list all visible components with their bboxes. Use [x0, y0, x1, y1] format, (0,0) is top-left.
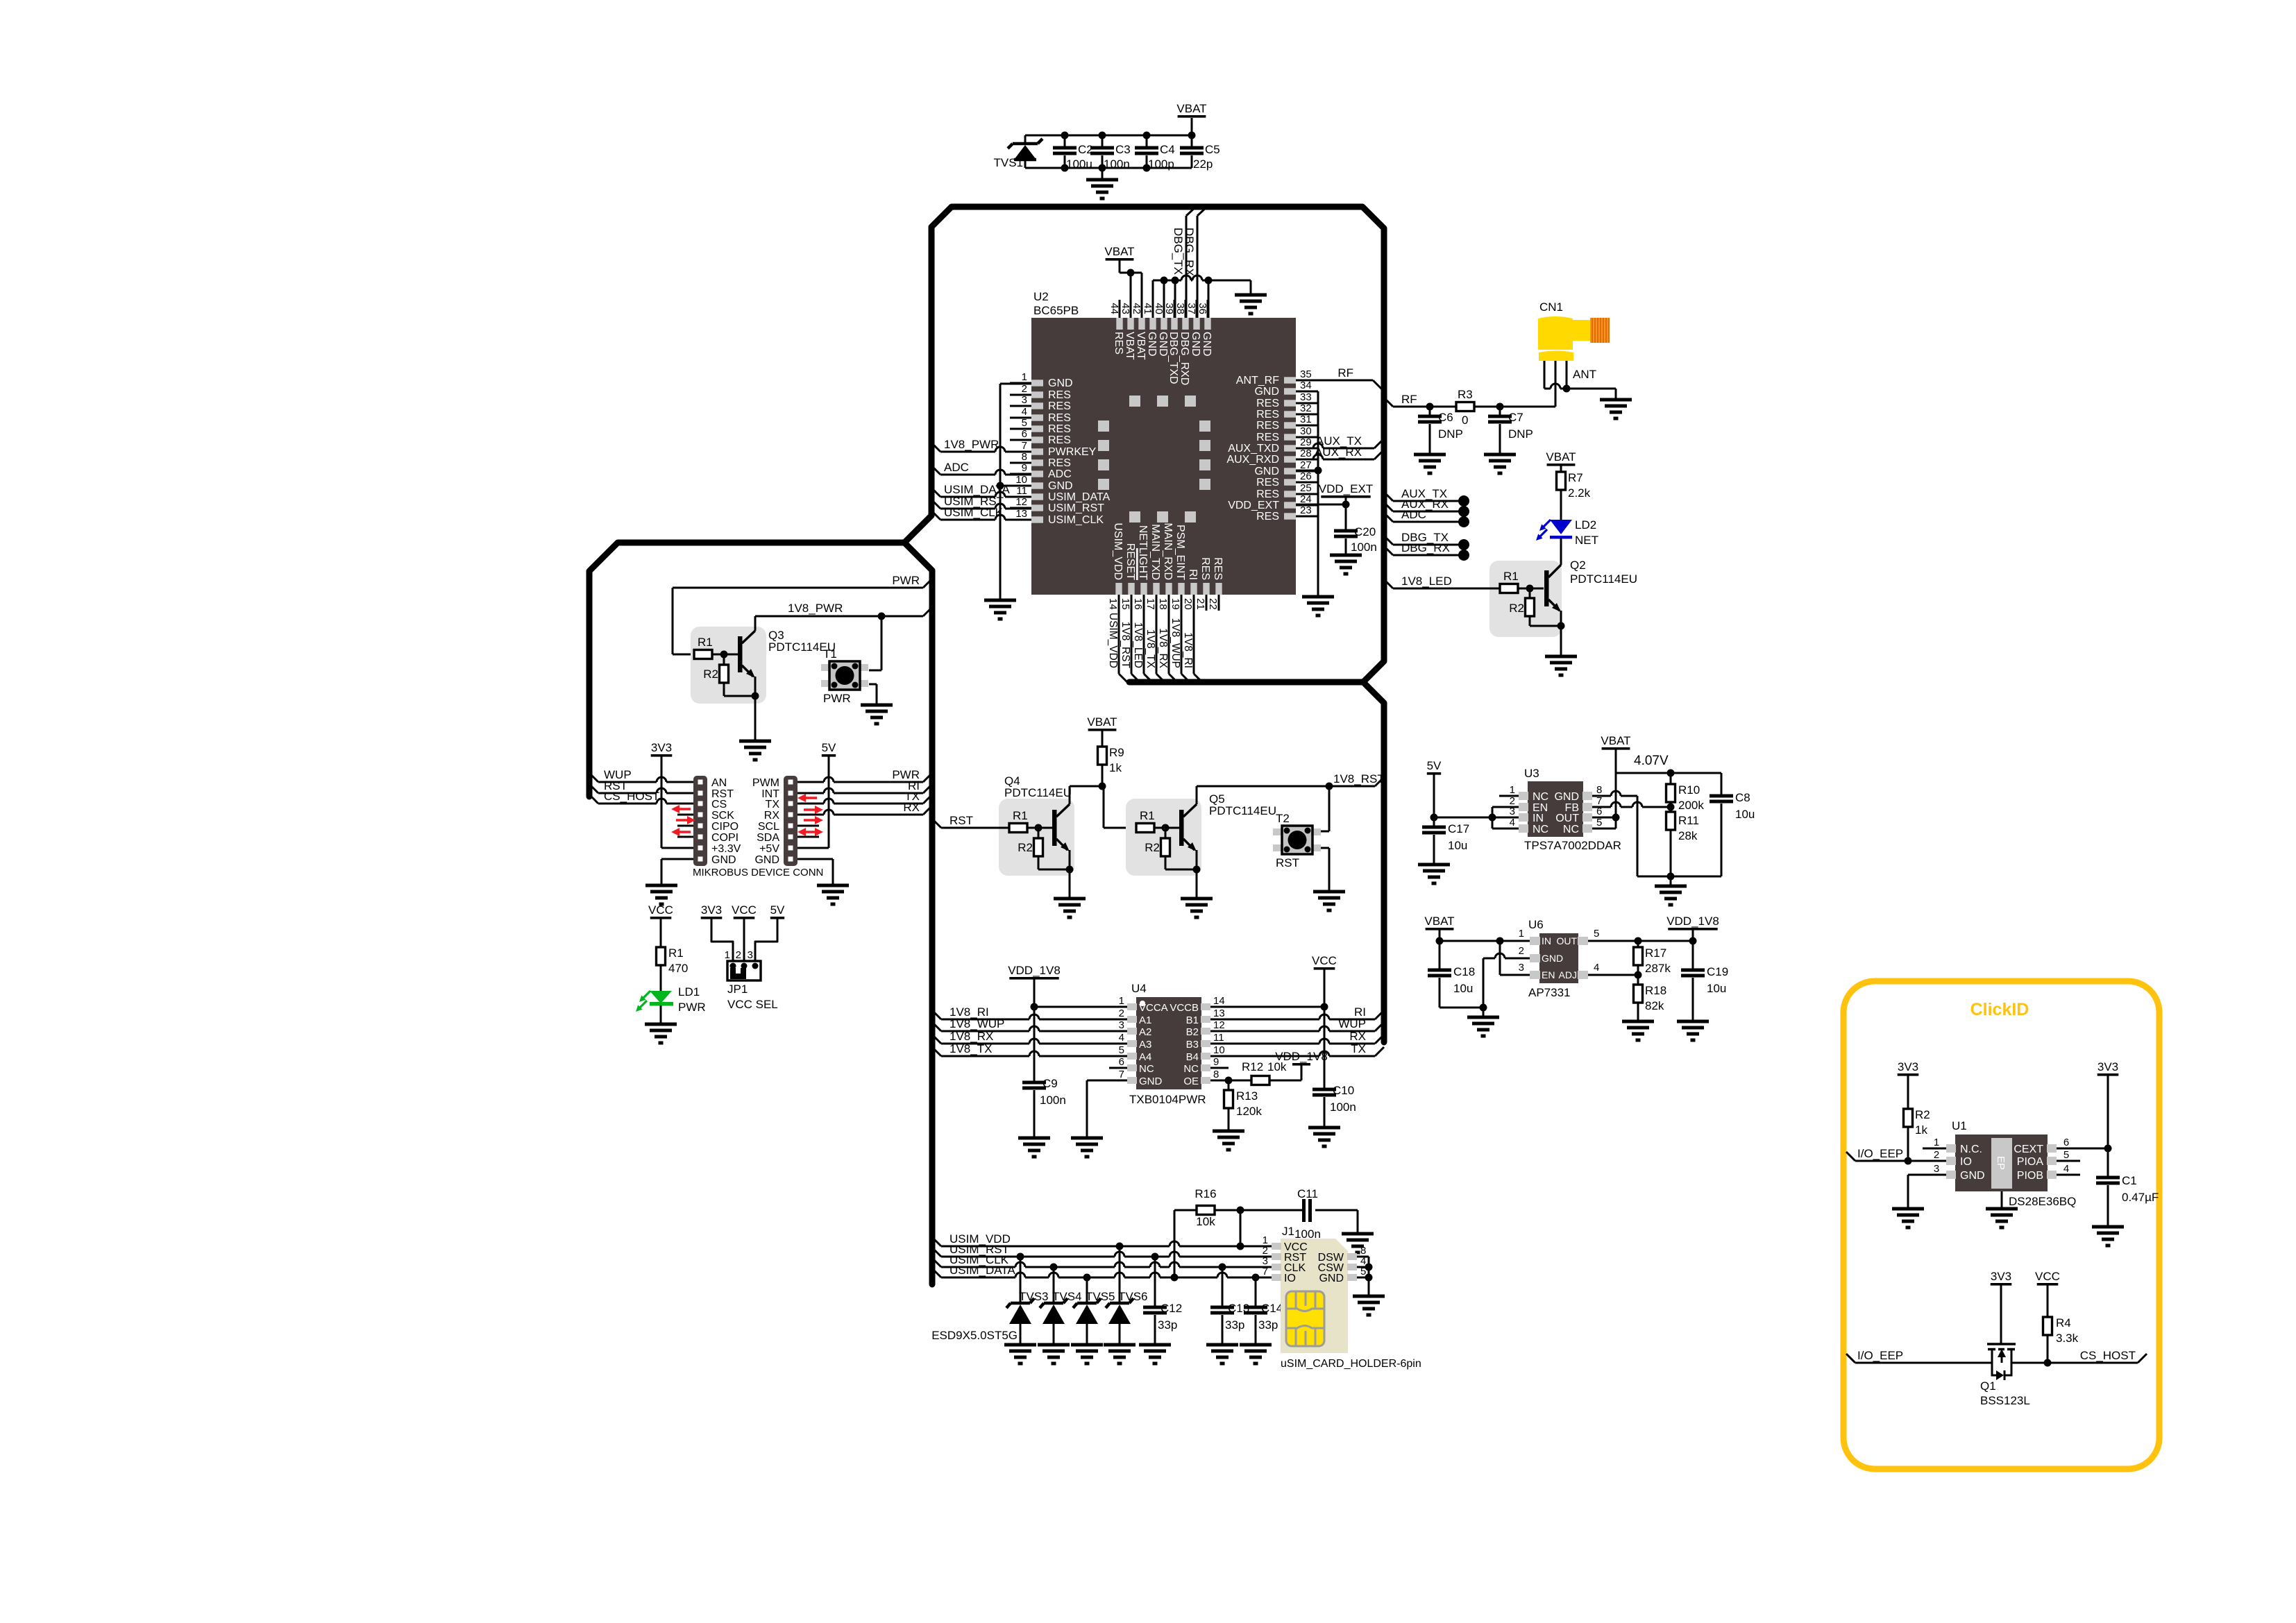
svg-text:RX: RX: [1349, 1030, 1366, 1043]
svg-text:100p: 100p: [1148, 158, 1174, 171]
svg-text:U2: U2: [1033, 290, 1049, 303]
wire U4 B3 to bus RX: [1210, 1043, 1319, 1045]
transistor Q5 NPN symbol: [1179, 810, 1184, 846]
wire pin1/pin10 GND: [1000, 383, 1031, 385]
transistor Q3 NPN symbol: [738, 636, 743, 672]
svg-text:5: 5: [1022, 417, 1027, 429]
resistor R2 (Q4): [1038, 828, 1040, 838]
svg-text:R17: R17: [1645, 946, 1666, 960]
svg-text:28k: 28k: [1678, 829, 1698, 842]
svg-text:3: 3: [1519, 962, 1524, 974]
ground (left header): [645, 884, 677, 887]
svg-text:RES: RES: [1113, 332, 1124, 355]
svg-text:33p: 33p: [1158, 1318, 1177, 1332]
svg-text:287k: 287k: [1645, 962, 1671, 975]
U2 top pins 44-36 pads and names: [1108, 300, 1213, 385]
svg-text:1V8_RST: 1V8_RST: [1333, 772, 1385, 785]
ground (T1): [861, 704, 893, 707]
net flag USIM_RST to pin 12: [931, 500, 940, 509]
svg-text:26: 26: [1300, 470, 1312, 482]
svg-text:R12: R12: [1242, 1060, 1263, 1073]
svg-text:CS_HOST: CS_HOST: [604, 790, 659, 803]
svg-text:4: 4: [1119, 1032, 1124, 1044]
ground (R13): [1213, 1130, 1244, 1133]
net labels below U2 (rotated): [1107, 613, 1194, 669]
wire VBAT down to OUT pin: [1615, 773, 1617, 829]
net flag USIM_DATA to pin 11: [931, 488, 940, 497]
svg-text:TVS6: TVS6: [1118, 1290, 1148, 1303]
svg-text:18: 18: [1157, 598, 1169, 610]
ground (top filter): [1101, 168, 1104, 180]
net flag AUX_RX testpoint: [1384, 502, 1393, 511]
svg-text:GND: GND: [1048, 377, 1073, 389]
svg-text:21: 21: [1195, 598, 1206, 610]
svg-text:5: 5: [1119, 1044, 1124, 1056]
ground (U2 left): [984, 599, 1016, 602]
svg-text:MAIN_RXD: MAIN_RXD: [1162, 522, 1174, 580]
wire U4 B1 to bus RI: [1210, 1019, 1319, 1021]
wire VDD_1V8 to VCCA: [1034, 1006, 1127, 1008]
svg-text:10: 10: [1015, 474, 1027, 486]
svg-text:35: 35: [1300, 368, 1312, 380]
svg-text:C10: C10: [1333, 1084, 1354, 1097]
svg-text:NC: NC: [1183, 1063, 1199, 1075]
svg-text:44: 44: [1108, 303, 1120, 314]
svg-text:0: 0: [1462, 414, 1468, 427]
TVS diode TVS1: [1013, 142, 1038, 146]
svg-text:ANT: ANT: [1573, 368, 1596, 381]
stub+arrow SCL: [797, 825, 819, 827]
svg-text:GND: GND: [1554, 791, 1579, 803]
svg-text:U1: U1: [1952, 1119, 1967, 1132]
svg-text:C17: C17: [1448, 822, 1469, 835]
resistor R13 120k: [1228, 1080, 1230, 1090]
wire VBAT output rail: [1616, 772, 1721, 774]
capacitor C6 DNP: [1429, 407, 1431, 416]
svg-text:RF: RF: [1337, 366, 1353, 380]
svg-text:200k: 200k: [1678, 799, 1704, 812]
svg-text:WUP: WUP: [1338, 1017, 1366, 1030]
svg-text:100n: 100n: [1104, 158, 1130, 171]
svg-text:R1: R1: [668, 946, 684, 960]
svg-text:MAIN_TXD: MAIN_TXD: [1149, 524, 1161, 580]
wire U4 OE pin8: [1210, 1080, 1251, 1082]
svg-text:1: 1: [725, 949, 730, 961]
transistor Q4 PDTC114EU block: [999, 799, 1074, 876]
svg-text:OUT: OUT: [1556, 935, 1577, 946]
wire bus branch below U2 pins: [1129, 679, 1363, 686]
resistor R4 3.3k: [2043, 1317, 2052, 1335]
svg-text:82k: 82k: [1645, 999, 1664, 1012]
stub+arrow SCK: [677, 814, 693, 816]
svg-text:GND: GND: [1254, 466, 1279, 477]
svg-text:C4: C4: [1160, 143, 1175, 156]
svg-text:4: 4: [1022, 406, 1027, 418]
svg-text:GND: GND: [1254, 386, 1279, 398]
svg-text:1k: 1k: [1109, 761, 1122, 774]
wire U6 OUT rail: [1588, 940, 1693, 942]
svg-text:1V8_RX: 1V8_RX: [1157, 628, 1169, 668]
svg-text:3: 3: [1934, 1163, 1939, 1175]
wire PWR to Q3 base resistor: [673, 587, 923, 589]
svg-text:5: 5: [1594, 928, 1599, 940]
svg-text:5V: 5V: [1427, 759, 1442, 772]
svg-text:GND: GND: [1139, 1076, 1163, 1087]
ground (C20): [1330, 554, 1362, 557]
svg-text:5: 5: [1596, 817, 1602, 829]
net flag 1V8_RST (Q5 collector to bus): [1197, 785, 1375, 788]
wire R9 node to Q4 collector and Q5 base: [1070, 785, 1104, 788]
wire U6 EN tie: [1499, 941, 1501, 975]
capacitor C11 100n: [1302, 1199, 1306, 1222]
connector J1 uSIM card holder: [1263, 1225, 1421, 1370]
resistor R1 (Q2 base): [1393, 588, 1500, 590]
svg-text:10u: 10u: [1707, 982, 1726, 995]
svg-text:T1: T1: [823, 647, 837, 661]
wires U2 bottom pins to bus: [1119, 595, 1202, 682]
svg-text:11: 11: [1016, 485, 1027, 497]
net flag RST (mikroBUS): [589, 784, 598, 793]
svg-text:C7: C7: [1508, 411, 1523, 424]
svg-text:VDD_1V8: VDD_1V8: [1008, 964, 1061, 977]
svg-text:3V3: 3V3: [1898, 1060, 1918, 1073]
wire VCCB: [1210, 1006, 1324, 1008]
svg-text:R18: R18: [1645, 984, 1666, 997]
ground (C10): [1308, 1126, 1340, 1130]
svg-text:MIKROBUS DEVICE CONN: MIKROBUS DEVICE CONN: [693, 867, 823, 878]
svg-text:1: 1: [1519, 928, 1524, 940]
svg-text:OUT: OUT: [1555, 813, 1579, 824]
svg-text:PWR: PWR: [892, 574, 920, 587]
svg-text:C11: C11: [1297, 1187, 1318, 1200]
stub+arrow CIPO: [677, 825, 693, 827]
svg-text:14: 14: [1213, 995, 1225, 1007]
stub+arrow COPI: [677, 836, 693, 838]
capacitor C3: [1101, 135, 1104, 148]
wire GND rail above U2: [1153, 280, 1181, 282]
svg-text:COPI: COPI: [711, 832, 738, 844]
wire U3 FB pin7: [1592, 806, 1611, 808]
svg-text:7: 7: [1119, 1069, 1124, 1080]
svg-text:A3: A3: [1139, 1039, 1151, 1051]
svg-text:AN: AN: [711, 777, 727, 789]
svg-text:NC: NC: [1139, 1063, 1154, 1075]
ground (Q4): [1054, 897, 1086, 901]
svg-text:ClickID: ClickID: [1970, 1000, 2029, 1019]
ground (C19): [1677, 1020, 1709, 1023]
wire pin34/pin27 GND: [1296, 391, 1318, 393]
svg-text:34: 34: [1300, 380, 1312, 391]
IC U1 DS28E36BQ: [1934, 1119, 2077, 1208]
svg-text:2: 2: [1519, 945, 1524, 957]
resistor R1 (Q5 base): [1136, 824, 1154, 833]
svg-text:PDTC114EU: PDTC114EU: [1209, 804, 1276, 817]
net flag PWR (to Q3): [923, 579, 932, 588]
svg-text:12: 12: [1213, 1019, 1225, 1031]
ground (right header): [817, 884, 849, 887]
svg-text:27: 27: [1300, 459, 1312, 471]
svg-text:TXB0104PWR: TXB0104PWR: [1129, 1093, 1206, 1106]
svg-text:CS_HOST: CS_HOST: [2080, 1349, 2136, 1362]
svg-text:3.3k: 3.3k: [2056, 1332, 2079, 1345]
svg-text:VCCB: VCCB: [1170, 1002, 1199, 1014]
svg-text:RES: RES: [1256, 420, 1279, 432]
connector mikroBUS left header: [693, 776, 741, 866]
svg-text:9: 9: [1022, 462, 1027, 474]
svg-text:2: 2: [1119, 1008, 1124, 1019]
capacitor C9 100n: [1022, 1081, 1046, 1085]
svg-text:R1: R1: [1013, 809, 1028, 822]
svg-text:23: 23: [1300, 504, 1312, 516]
svg-text:ADC: ADC: [944, 461, 969, 474]
wire TX row to bus: [797, 803, 824, 805]
IC U6 AP7331: [1519, 918, 1600, 999]
wire PWM row to bus PWR: [797, 781, 824, 783]
svg-text:C3: C3: [1115, 143, 1131, 156]
svg-text:PSM_EINT: PSM_EINT: [1174, 525, 1186, 580]
svg-text:VBAT: VBAT: [1087, 715, 1117, 729]
svg-text:TVS3: TVS3: [1019, 1290, 1049, 1303]
svg-text:USIM_CLK: USIM_CLK: [1048, 514, 1104, 526]
svg-text:IN: IN: [1542, 935, 1551, 946]
ground (R18): [1622, 1020, 1654, 1023]
wire DBG_TX vertical: [1185, 216, 1188, 318]
svg-text:VCC: VCC: [648, 903, 673, 917]
svg-text:37: 37: [1185, 303, 1197, 314]
svg-text:120k: 120k: [1236, 1105, 1262, 1118]
svg-text:NETLIGHT: NETLIGHT: [1137, 525, 1149, 580]
wire bus mikroBUS region top edge and left edge: [589, 543, 904, 797]
TVS diode TVS6: [1119, 1246, 1121, 1303]
svg-text:VCC: VCC: [2035, 1270, 2060, 1283]
svg-text:1V8_RI: 1V8_RI: [1182, 632, 1194, 668]
ground (U3): [1655, 885, 1687, 888]
stub+arrow SDA: [797, 836, 819, 838]
wire AUX_TXD to bus: [1296, 448, 1313, 450]
svg-text:PWR: PWR: [678, 1001, 706, 1014]
svg-text:39: 39: [1163, 303, 1175, 314]
svg-text:NC: NC: [1533, 824, 1548, 835]
svg-text:VCC SEL: VCC SEL: [727, 998, 778, 1011]
svg-text:GND: GND: [1146, 332, 1158, 357]
svg-text:PWM: PWM: [752, 777, 779, 789]
svg-text:BC65PB: BC65PB: [1033, 304, 1079, 317]
svg-text:33p: 33p: [1225, 1318, 1244, 1332]
svg-text:SCL: SCL: [758, 821, 779, 833]
TVS diode TVS3: [1020, 1257, 1022, 1303]
resistor R1 (Q3 base): [694, 650, 712, 659]
svg-text:13: 13: [1213, 1008, 1225, 1019]
svg-text:R2: R2: [703, 668, 718, 681]
svg-text:1: 1: [1510, 784, 1515, 796]
ground (Q5): [1181, 897, 1213, 901]
svg-text:N.C.: N.C.: [1960, 1144, 1982, 1155]
capacitor C8 10u: [1721, 773, 1723, 796]
svg-text:1V8_WUP: 1V8_WUP: [949, 1017, 1004, 1030]
net flag USIM_VDD row: [932, 1237, 941, 1246]
wire DBG_RX vertical: [1197, 216, 1199, 318]
wire U1 GND: [1908, 1174, 1946, 1176]
svg-text:17: 17: [1145, 598, 1156, 610]
svg-text:5V: 5V: [822, 741, 836, 754]
svg-text:VCC: VCC: [1312, 954, 1337, 967]
svg-text:C12: C12: [1160, 1302, 1182, 1315]
svg-text:11: 11: [1213, 1032, 1224, 1044]
svg-text:R1: R1: [1140, 809, 1155, 822]
wire U3 pin1 NC stub: [1499, 795, 1519, 797]
wire U1 pin1 stub: [1923, 1148, 1946, 1150]
svg-text:1V8_LED: 1V8_LED: [1401, 575, 1452, 588]
svg-text:6: 6: [1119, 1056, 1124, 1068]
svg-text:15: 15: [1120, 598, 1131, 610]
svg-text:TVS1: TVS1: [993, 156, 1023, 169]
svg-text:I/O_EEP: I/O_EEP: [1857, 1147, 1903, 1160]
svg-text:USIM_VDD: USIM_VDD: [1112, 522, 1124, 580]
U2 inner pad ring: [1098, 396, 1210, 522]
svg-text:LD1: LD1: [678, 985, 700, 999]
svg-text:NC: NC: [1563, 824, 1579, 835]
svg-text:TPS7A7002DDAR: TPS7A7002DDAR: [1524, 839, 1621, 852]
svg-text:3: 3: [1022, 394, 1027, 406]
transistor Q2 NPN symbol: [1544, 570, 1549, 606]
svg-text:U6: U6: [1528, 918, 1544, 931]
svg-text:VDD_EXT: VDD_EXT: [1319, 482, 1373, 495]
svg-text:3V3: 3V3: [2097, 1060, 2118, 1073]
svg-text:C5: C5: [1205, 143, 1220, 156]
svg-text:C1: C1: [2122, 1174, 2137, 1187]
capacitor C18 10u: [1439, 941, 1441, 970]
svg-text:GND: GND: [1048, 480, 1073, 492]
svg-text:R2: R2: [1915, 1108, 1930, 1121]
svg-text:RES: RES: [1212, 557, 1224, 580]
ground (Q2 emitter): [1545, 655, 1577, 658]
wire pin24 VDD_EXT: [1296, 504, 1346, 506]
svg-text:C18: C18: [1453, 965, 1475, 978]
svg-text:PWR: PWR: [823, 692, 851, 705]
svg-text:32: 32: [1300, 402, 1312, 414]
svg-text:B1: B1: [1186, 1014, 1199, 1026]
svg-text:36: 36: [1197, 303, 1208, 314]
svg-text:U3: U3: [1524, 767, 1539, 780]
svg-text:DBG_RX: DBG_RX: [1183, 228, 1196, 276]
svg-text:4: 4: [2063, 1163, 2069, 1175]
svg-text:DBG_RX: DBG_RX: [1401, 541, 1450, 554]
U2 left pins 1-13 pads and names: [1010, 371, 1111, 526]
stub+arrow TX: [804, 808, 817, 811]
wire Q1 drain to CS_HOST: [2011, 1362, 2138, 1364]
wire CN1 pins: [1544, 361, 1546, 389]
resistor R16 10k: [1197, 1206, 1215, 1215]
capacitor C4: [1146, 135, 1148, 148]
svg-text:AP7331: AP7331: [1528, 986, 1571, 999]
svg-text:31: 31: [1300, 414, 1312, 425]
svg-text:TX: TX: [766, 799, 780, 810]
ground (T2): [1313, 890, 1345, 894]
svg-text:B2: B2: [1186, 1026, 1199, 1038]
svg-text:PDTC114EU: PDTC114EU: [1570, 572, 1637, 586]
SIM contact art: [1286, 1291, 1324, 1346]
svg-text:22: 22: [1207, 598, 1219, 610]
svg-text:RF: RF: [1401, 393, 1417, 406]
svg-text:GND: GND: [1190, 332, 1201, 357]
resistor R7 2.2k: [1557, 472, 1566, 490]
svg-text:VBAT: VBAT: [1135, 332, 1147, 360]
svg-text:2: 2: [1934, 1149, 1939, 1161]
svg-text:8: 8: [1213, 1069, 1219, 1080]
ground (J1): [1353, 1295, 1385, 1298]
svg-text:14: 14: [1107, 598, 1119, 610]
svg-text:LD2: LD2: [1575, 518, 1596, 532]
wire R3 to antenna: [1474, 406, 1555, 408]
svg-text:R13: R13: [1236, 1089, 1258, 1103]
svg-text:7: 7: [1263, 1266, 1268, 1277]
svg-text:OE: OE: [1183, 1076, 1199, 1087]
capacitor C17 10u: [1430, 814, 1438, 822]
svg-text:VBAT: VBAT: [1176, 102, 1206, 115]
wire AUX_RXD to bus: [1296, 459, 1313, 461]
svg-text:U4: U4: [1131, 982, 1147, 995]
svg-text:1V8_LED: 1V8_LED: [1132, 622, 1144, 668]
svg-text:BSS123L: BSS123L: [1980, 1394, 2030, 1407]
svg-text:RES: RES: [1048, 457, 1071, 469]
svg-text:PWRKEY: PWRKEY: [1048, 446, 1097, 458]
svg-text:R4: R4: [2056, 1316, 2071, 1329]
transistor Q2 PDTC114EU block: [1489, 561, 1562, 637]
svg-text:VBAT: VBAT: [1124, 332, 1136, 360]
net flag 1V8_RX to U4: [932, 1035, 941, 1044]
svg-text:10u: 10u: [1448, 839, 1467, 852]
svg-text:25: 25: [1300, 482, 1312, 494]
stub+arrow RX: [804, 819, 817, 822]
svg-text:R16: R16: [1195, 1187, 1216, 1200]
svg-text:I/O_EEP: I/O_EEP: [1857, 1349, 1903, 1362]
svg-text:Q2: Q2: [1570, 559, 1586, 572]
svg-text:JP1: JP1: [727, 983, 748, 996]
svg-text:24: 24: [1300, 493, 1312, 505]
svg-text:uSIM_CARD_HOLDER-6pin: uSIM_CARD_HOLDER-6pin: [1281, 1358, 1421, 1370]
svg-text:GND: GND: [1542, 953, 1563, 964]
svg-text:40: 40: [1153, 303, 1165, 314]
svg-text:2.2k: 2.2k: [1568, 486, 1591, 500]
svg-text:Q1: Q1: [1980, 1379, 1996, 1393]
net flag ADC testpoint: [1384, 513, 1393, 522]
svg-text:PIOA: PIOA: [2017, 1156, 2044, 1168]
svg-text:41: 41: [1142, 303, 1154, 314]
net flag 1V8_RI to U4: [932, 1010, 941, 1019]
svg-text:RES: RES: [1256, 488, 1279, 500]
resistor R12 10k: [1251, 1076, 1269, 1085]
svg-text:VCCA: VCCA: [1139, 1002, 1168, 1014]
stub+arrow INT: [804, 797, 817, 799]
wire bus central vertical edge: [904, 543, 932, 1284]
svg-text:C19: C19: [1707, 965, 1728, 978]
wire INT row to bus RI: [797, 792, 824, 794]
resistor R2 (Q5): [1165, 828, 1167, 838]
svg-text:6: 6: [2063, 1137, 2069, 1148]
ground (U4 GND): [1071, 1137, 1103, 1140]
svg-text:ADJ: ADJ: [1559, 969, 1577, 980]
svg-text:13: 13: [1015, 508, 1027, 520]
wire CEXT to C1: [2057, 1148, 2108, 1150]
U2 bottom pins 14-22 pads and names: [1107, 522, 1224, 609]
resistor R1 470: [657, 947, 666, 965]
svg-text:38: 38: [1174, 303, 1186, 314]
svg-text:SDA: SDA: [757, 832, 779, 844]
svg-text:22p: 22p: [1193, 158, 1213, 171]
U2 right pins 35-23 pads and names: [1226, 368, 1317, 522]
svg-text:2: 2: [736, 949, 741, 961]
svg-text:RES: RES: [1048, 412, 1071, 424]
